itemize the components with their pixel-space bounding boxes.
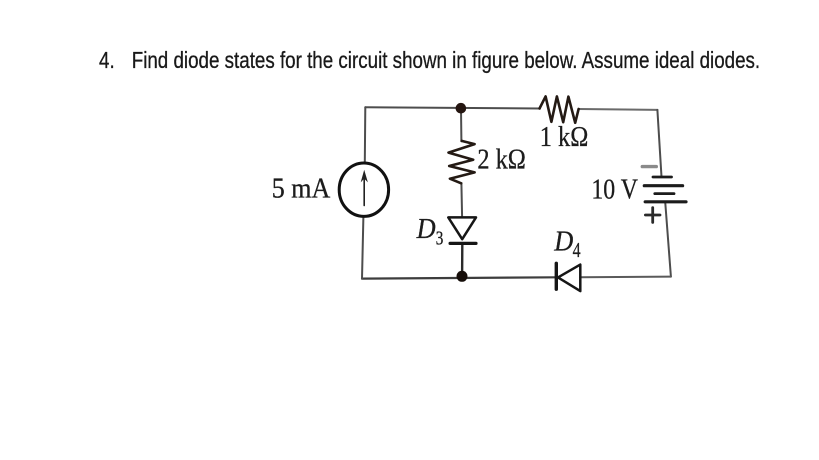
wire right upper (top-right corner down to battery) <box>657 110 661 177</box>
diode D3 cathode bar <box>450 242 476 245</box>
diode D3 (cathode-down triangle) <box>448 217 476 239</box>
wire middle upper (top node down to 2k resistor) <box>460 108 462 141</box>
problem statement text <box>99 47 760 74</box>
wire left upper (current source up to top-left corner) <box>364 107 367 163</box>
battery plus sign <box>645 208 660 223</box>
wire middle lower (D3 cathode down to bottom node) <box>461 245 464 277</box>
wire top (right segment, from 1k resistor to top-right corner) <box>579 108 658 111</box>
wire top (left segment, from top-left corner to 1k resistor) <box>365 107 540 108</box>
svg-text:3: 3 <box>436 227 444 249</box>
battery V1 plate 4 (long, positive bottom) <box>645 200 686 203</box>
wire bottom (right segment, corner to diode D4) <box>580 276 671 279</box>
wire middle between 2k resistor and diode D3 <box>460 183 463 217</box>
diode D4 (points left along bottom wire) <box>558 265 580 292</box>
svg-text:1 kΩ: 1 kΩ <box>540 122 589 153</box>
wire right lower (battery to bottom-right corner) <box>665 202 671 277</box>
battery V1 plate 1 (short, negative top) <box>653 176 672 179</box>
wire bottom (left segment, D4 to bottom-left corner) <box>362 277 556 278</box>
resistor 2 kΩ (vertical zigzag in middle branch) <box>449 141 475 183</box>
node top junction dot <box>456 103 467 114</box>
resistor 1 kΩ (horizontal zigzag on top wire) <box>540 96 579 122</box>
svg-text:4: 4 <box>573 238 581 262</box>
wire left lower (bottom-left corner up to current source) <box>362 216 363 278</box>
svg-text:5 mA: 5 mA <box>272 174 331 205</box>
node bottom junction dot <box>457 271 468 282</box>
battery V1 plate 3 (short) <box>655 192 674 195</box>
current source I1 arrow (upward) <box>363 174 365 206</box>
svg-text:D: D <box>416 214 436 245</box>
diode D4 cathode bar <box>555 263 558 289</box>
svg-text:D: D <box>553 226 573 257</box>
svg-text:10 V: 10 V <box>591 174 638 205</box>
svg-text:2 kΩ: 2 kΩ <box>477 143 526 175</box>
battery minus sign <box>642 165 656 168</box>
battery V1 plate 2 (long) <box>644 184 682 187</box>
current source I1 circle <box>339 163 388 216</box>
